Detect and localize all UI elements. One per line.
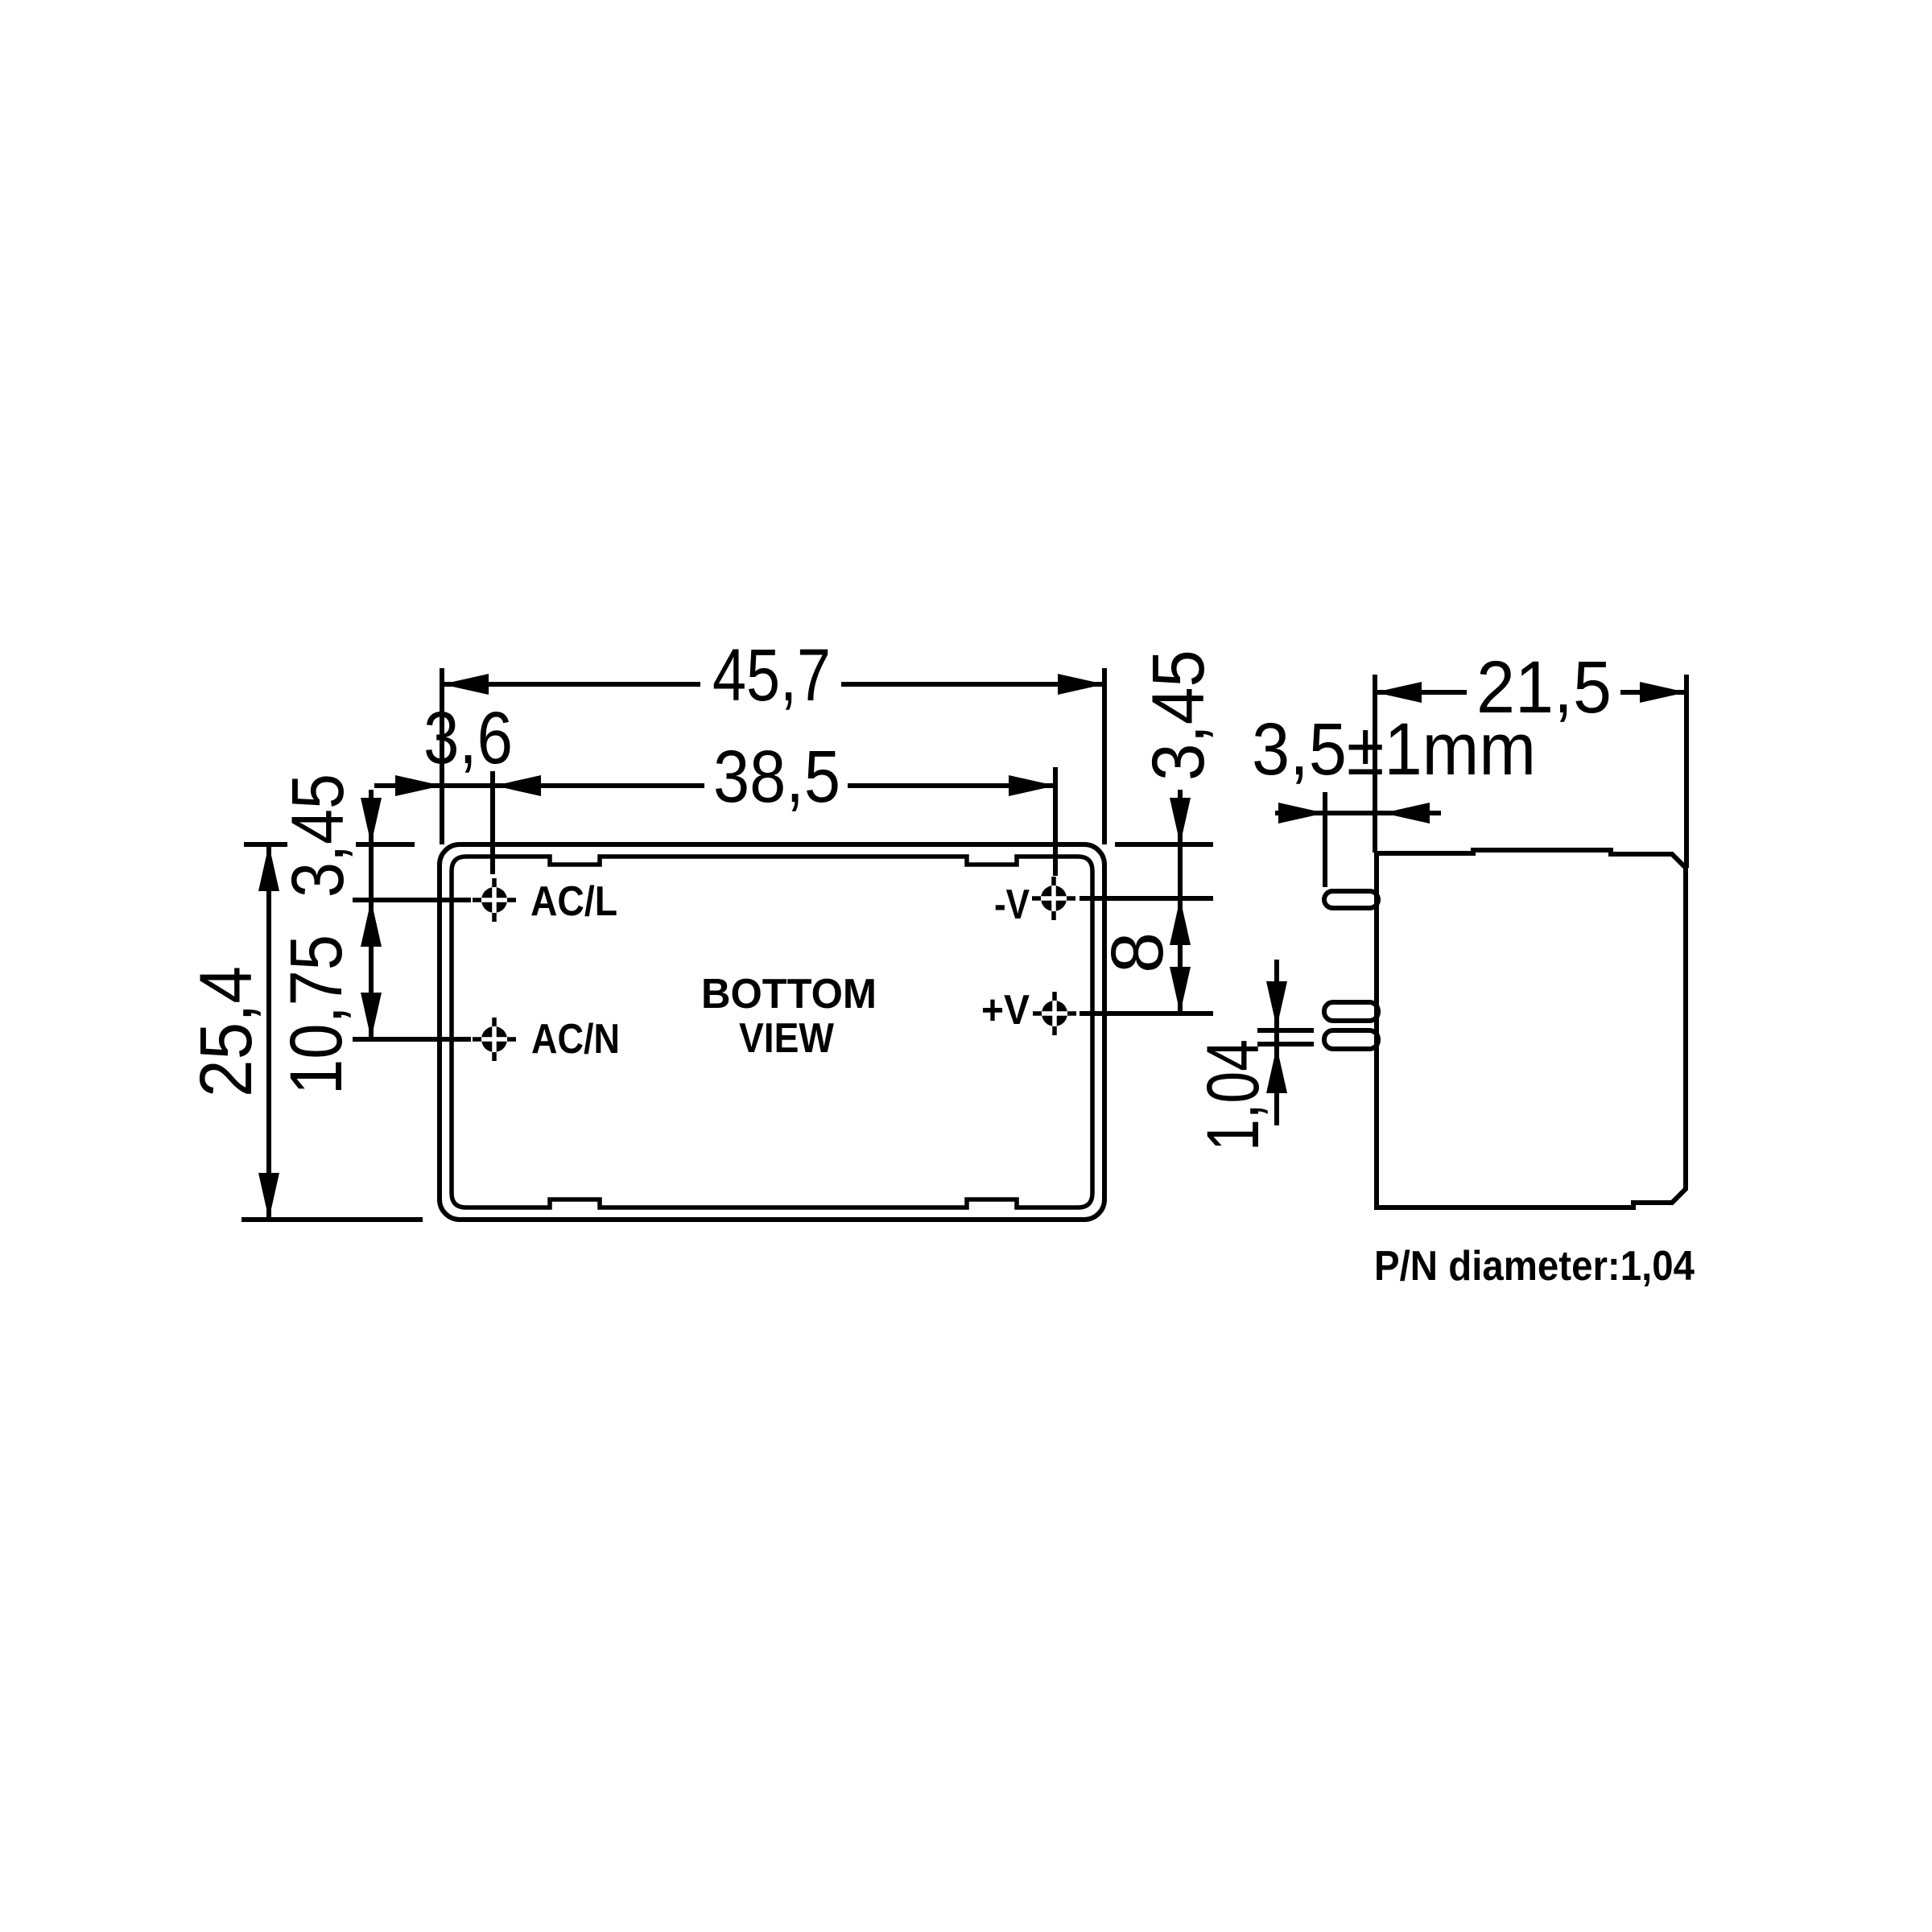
svg-text:8: 8: [1096, 932, 1179, 973]
svg-text:+V: +V: [981, 987, 1030, 1034]
svg-text:AC/N: AC/N: [531, 1016, 620, 1063]
svg-text:3,45: 3,45: [277, 774, 359, 898]
svg-text:P/N diameter:1,04: P/N diameter:1,04: [1374, 1243, 1695, 1290]
svg-text:45,7: 45,7: [712, 634, 831, 716]
svg-text:38,5: 38,5: [713, 736, 840, 818]
svg-text:3,5±1mm: 3,5±1mm: [1252, 708, 1536, 791]
svg-text:-V: -V: [994, 881, 1030, 928]
svg-text:VIEW: VIEW: [739, 1015, 835, 1062]
svg-text:BOTTOM: BOTTOM: [701, 971, 877, 1018]
svg-text:3,45: 3,45: [1137, 650, 1220, 781]
svg-text:10,75: 10,75: [275, 935, 357, 1095]
svg-text:3,6: 3,6: [423, 697, 513, 779]
svg-text:25,4: 25,4: [185, 966, 267, 1097]
svg-text:1,04: 1,04: [1192, 1039, 1274, 1151]
svg-text:AC/L: AC/L: [530, 878, 617, 925]
